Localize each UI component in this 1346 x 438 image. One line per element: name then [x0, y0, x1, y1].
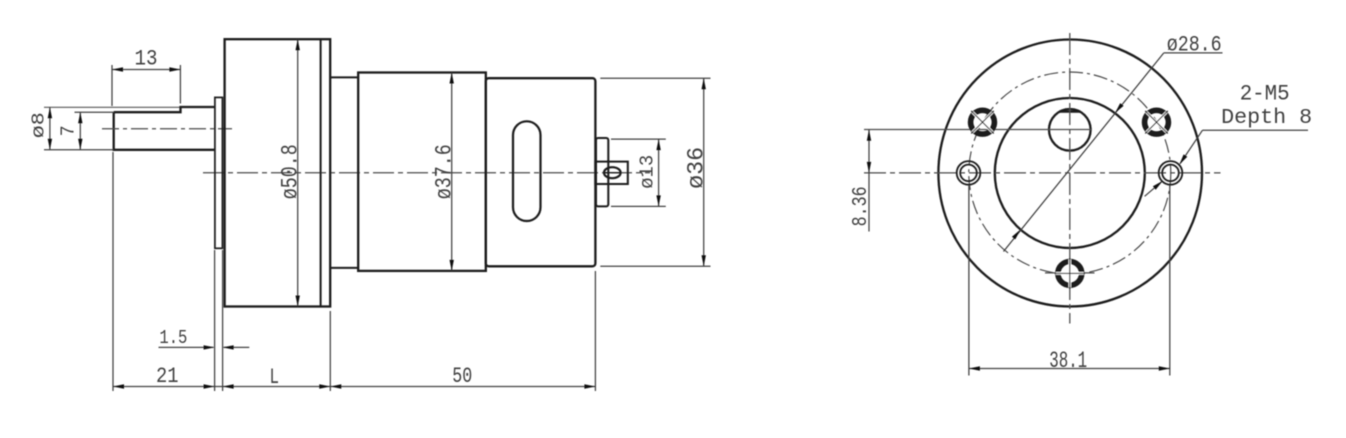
- wire: shaft full-diameter top thin line: [44, 106, 181, 108]
- svg-text:50: 50: [452, 364, 472, 389]
- horizontal centerline: [864, 172, 1221, 174]
- rear terminal block: [595, 162, 627, 184]
- motor front section: [358, 73, 486, 271]
- svg-text:ø36: ø36: [684, 147, 710, 189]
- rear shaft slot line: [605, 172, 620, 174]
- oval vent slot: [513, 121, 541, 221]
- svg-text:13: 13: [135, 46, 158, 71]
- plain hole left: [957, 161, 981, 185]
- gearbox body: [225, 39, 331, 306]
- svg-text:7: 7: [58, 125, 80, 136]
- dimension ø37.6: [451, 73, 453, 271]
- svg-text:1.5: 1.5: [159, 327, 187, 349]
- svg-text:ø13: ø13: [637, 155, 659, 189]
- dimension 13: [112, 65, 180, 106]
- dimension ø50.8: [297, 39, 299, 306]
- gearbox face inner line: [320, 39, 322, 306]
- motor can: [486, 78, 596, 266]
- output shaft D-flat outline: [114, 107, 216, 150]
- M5 hole upper-left: [971, 110, 995, 134]
- bottom dimension line: [113, 386, 595, 388]
- vertical centerline: [1069, 33, 1071, 324]
- shaft D-flat chord: [1059, 110, 1080, 113]
- rear bearing flange: [596, 138, 608, 206]
- svg-text:ø28.6: ø28.6: [1167, 33, 1222, 58]
- rear shaft end ellipse: [604, 167, 621, 178]
- plain hole right: [1159, 161, 1183, 185]
- svg-text:8.36: 8.36: [850, 186, 873, 226]
- shaft centerline: [102, 128, 232, 130]
- dimension 38.1: [969, 185, 1170, 376]
- svg-text:2-M5: 2-M5: [1240, 82, 1290, 107]
- svg-text:L: L: [270, 365, 280, 390]
- dimension 8.36: [868, 130, 870, 232]
- svg-text:ø37.6: ø37.6: [432, 144, 458, 199]
- dimension ø13 (rear): [611, 139, 666, 206]
- 2-M5 leader: [1180, 130, 1202, 163]
- svg-text:Depth 8: Depth 8: [1221, 106, 1312, 130]
- bolt circle (dash-dot): [969, 72, 1171, 274]
- svg-text:ø50.8: ø50.8: [278, 144, 304, 199]
- front shaft circle: [1049, 109, 1091, 151]
- neck bottom line: [330, 267, 358, 269]
- svg-text:ø8: ø8: [30, 112, 50, 138]
- main axis centerline: [203, 172, 650, 174]
- bottom extension lines: [113, 152, 595, 391]
- neck top line: [330, 76, 358, 78]
- dimension 7: [75, 112, 114, 150]
- dimension ø28.6 leader: [1004, 53, 1164, 252]
- dimension ø36: [600, 78, 710, 266]
- shaft axis extension line: [864, 129, 1091, 131]
- M5 hole bottom: [1045, 258, 1095, 288]
- boss plate (1.5mm): [215, 97, 223, 248]
- dimension ø8: [44, 107, 114, 150]
- dimension 1.5: [159, 346, 250, 348]
- arrows 21 / L / 50: [113, 384, 215, 388]
- svg-text:21: 21: [156, 364, 179, 389]
- svg-text:38.1: 38.1: [1049, 348, 1087, 374]
- outer circle: [938, 40, 1202, 307]
- inner boss circle ø28.6: [995, 98, 1145, 248]
- M5 hole upper-right: [1145, 110, 1169, 134]
